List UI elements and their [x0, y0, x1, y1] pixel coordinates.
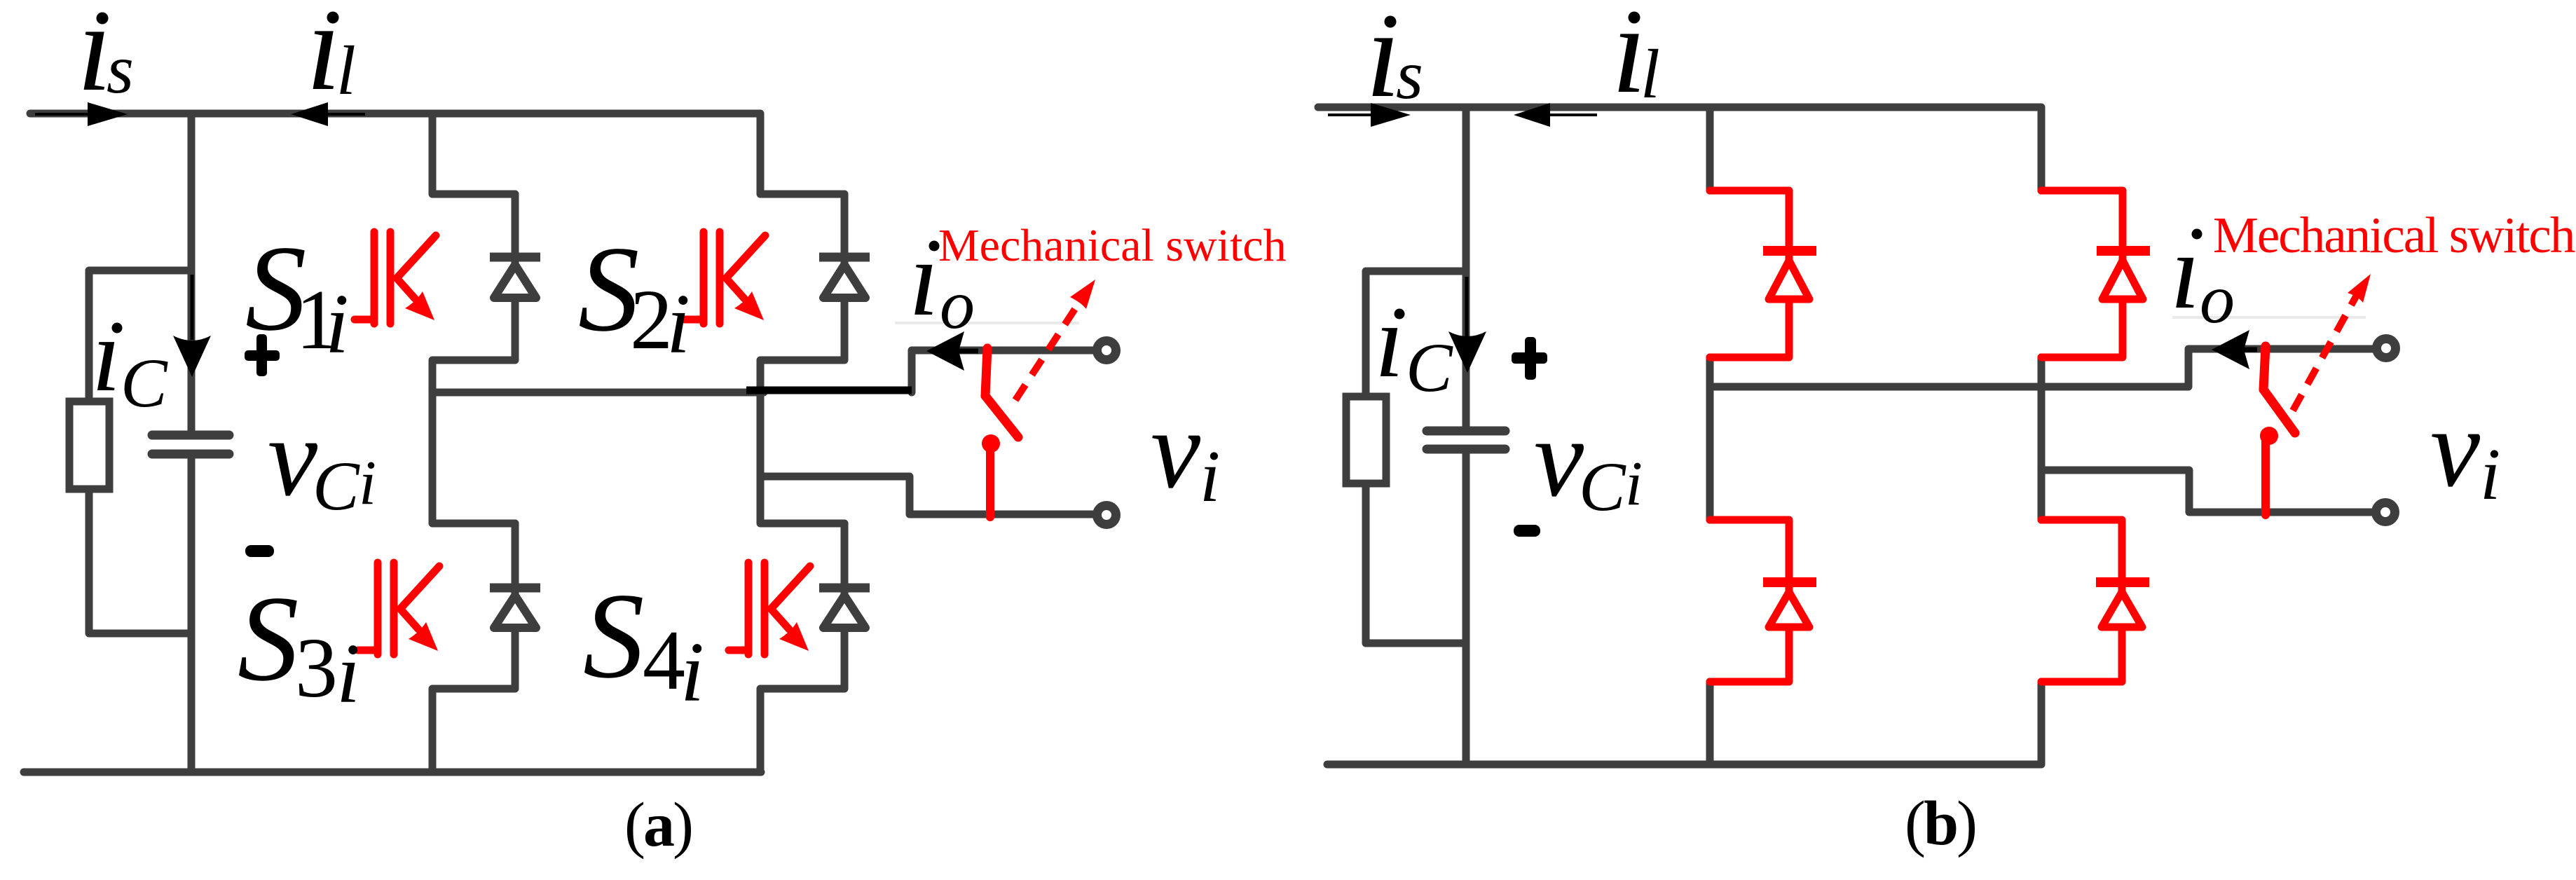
- svg-text:(a): (a): [624, 790, 692, 860]
- svg-text:o: o: [2200, 260, 2235, 338]
- svg-text:v: v: [2430, 385, 2481, 510]
- svg-text:S: S: [238, 570, 299, 706]
- svg-text:i: i: [1200, 435, 1220, 517]
- svg-text:Mechanical switch: Mechanical switch: [938, 220, 1287, 271]
- svg-text:4: 4: [643, 613, 685, 708]
- svg-text:v: v: [1534, 395, 1584, 520]
- svg-text:i: i: [336, 626, 360, 721]
- svg-text:Mechanical switch: Mechanical switch: [2213, 207, 2575, 263]
- svg-text:o: o: [940, 266, 975, 343]
- svg-text:v: v: [1151, 387, 1201, 511]
- svg-text:C: C: [121, 344, 168, 422]
- svg-text:v: v: [268, 394, 318, 519]
- svg-text:C: C: [1579, 448, 1626, 525]
- svg-text:s: s: [107, 30, 134, 108]
- svg-text:ı: ı: [1375, 283, 1404, 399]
- svg-text:i: i: [666, 277, 690, 371]
- svg-text:i: i: [1625, 449, 1643, 518]
- svg-text:(b): (b): [1905, 789, 1975, 858]
- svg-text:s: s: [1396, 36, 1423, 114]
- svg-text:i: i: [680, 625, 704, 720]
- svg-text:l: l: [336, 32, 356, 109]
- svg-text:l: l: [1640, 35, 1660, 113]
- svg-text:C: C: [313, 447, 360, 525]
- svg-text:C: C: [1406, 329, 1453, 406]
- svg-text:ı: ı: [909, 218, 939, 338]
- svg-text:3: 3: [295, 621, 338, 715]
- svg-text:ı: ı: [92, 297, 121, 413]
- svg-text:i: i: [359, 448, 376, 518]
- svg-text:i: i: [2480, 433, 2500, 515]
- svg-text:i: i: [325, 277, 349, 371]
- svg-text:S: S: [583, 568, 645, 703]
